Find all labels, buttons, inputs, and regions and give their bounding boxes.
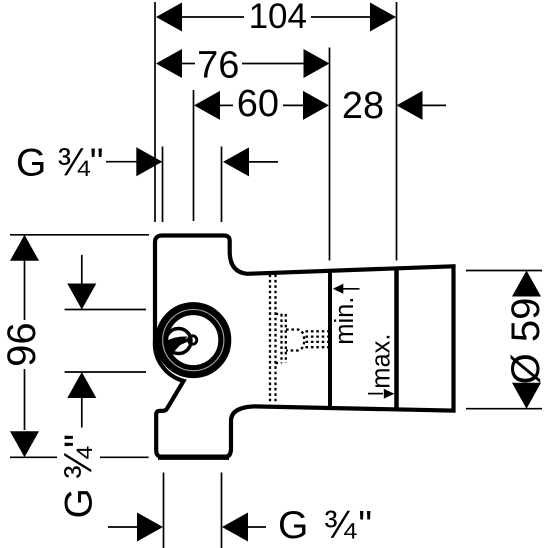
leader tail left port upper <box>81 255 83 285</box>
dimension line 76 right segment <box>242 63 305 65</box>
arrowhead left port lower <box>67 372 96 398</box>
leg bottom edge reinforcement <box>158 455 229 460</box>
max finished-wall divider line <box>394 267 399 409</box>
svg-text:max.: max. <box>368 334 396 389</box>
extension line 96 bottom left segment <box>10 456 57 458</box>
svg-text:76: 76 <box>197 44 239 86</box>
dimension line 60 right segment <box>283 104 305 106</box>
min finished-wall divider line <box>328 269 332 407</box>
hidden spindle cup dashed outline <box>286 330 304 351</box>
svg-text:Ø 59: Ø 59 <box>504 298 548 385</box>
arrowhead 96 bottom <box>10 431 39 457</box>
hidden spindle housing left dashed line <box>269 275 271 404</box>
hidden spindle housing right dashed line <box>274 275 276 404</box>
hidden spindle hub left dashed line <box>280 314 282 363</box>
leader tail bottom port left <box>108 526 139 528</box>
svg-text:60: 60 <box>237 83 279 125</box>
dimension line 104 right segment <box>311 16 372 18</box>
spindle spline dashed row 4 <box>306 346 330 348</box>
max arrowhead <box>384 389 395 399</box>
arrowhead dia 59 top <box>512 271 541 297</box>
arrowhead G 3/4 top leader <box>136 147 162 176</box>
arrowhead 104 right <box>370 3 396 32</box>
hidden spindle hub top dashed cap <box>276 313 282 315</box>
dimension line 104 left segment <box>180 16 244 18</box>
extension line bottom port right <box>221 473 223 548</box>
extension line 96 top <box>10 234 149 236</box>
leader tail top port right arrow <box>248 161 278 163</box>
spindle spline dashed row 3 <box>306 341 330 343</box>
hidden spindle hub right dashed line <box>285 314 287 363</box>
dimension 28 right tail <box>421 104 446 106</box>
dimension line 76 left segment <box>180 63 195 65</box>
extension line dia 59 bottom <box>466 408 542 410</box>
arrowhead 96 top <box>10 235 39 261</box>
extension line top port left <box>162 147 164 223</box>
arrowhead 76 right <box>304 49 330 78</box>
svg-text:28: 28 <box>342 85 384 127</box>
arrowhead 60 right <box>303 91 329 120</box>
min arrowhead <box>333 284 344 294</box>
extension line top port right <box>221 147 223 223</box>
dimension line 96 upper segment <box>24 259 26 320</box>
ring hairline separation <box>163 310 224 371</box>
leader tail left port lower <box>81 396 83 428</box>
arrowhead 104 left <box>156 3 182 32</box>
arrowhead 60 left <box>194 91 220 120</box>
extension line left port top <box>65 309 146 311</box>
valve spindle boss ring <box>162 309 225 372</box>
valve body outline (wall bracket, neck, escutcheon cone) <box>155 236 454 457</box>
svg-text:G ¾": G ¾" <box>57 435 100 519</box>
spindle spline dashed row 1 <box>306 330 330 332</box>
spindle lever bar <box>170 338 193 348</box>
svg-text:G ¾": G ¾" <box>16 141 104 184</box>
arrowhead bottom port left <box>137 513 163 542</box>
spindle knob circle <box>188 336 196 344</box>
svg-text:96: 96 <box>0 322 44 367</box>
svg-text:min.: min. <box>331 297 359 345</box>
arrowhead 28 right <box>397 91 423 120</box>
extension line dia 59 top <box>466 270 542 272</box>
arrowhead bottom port right <box>222 513 248 542</box>
spindle spline dashed row 2 <box>306 335 330 337</box>
extension line min wall <box>329 48 331 261</box>
extension line max wall <box>396 2 398 261</box>
arrowhead top port right <box>223 147 249 176</box>
arrowhead dia 59 bottom <box>512 383 541 409</box>
arrowhead left port upper <box>67 284 96 310</box>
extension line 96 bottom right segment <box>100 456 149 458</box>
arrowhead 76 left <box>156 49 182 78</box>
svg-text:104: 104 <box>249 0 307 36</box>
spindle circle <box>166 329 191 354</box>
extension line bottom port left <box>163 473 165 548</box>
dimension line 96 lower segment <box>24 369 26 430</box>
max arrow tail <box>368 393 383 395</box>
min arrow tail <box>343 288 360 290</box>
svg-text:G ¾": G ¾" <box>278 504 374 547</box>
spindle lever wedge <box>167 337 188 353</box>
hidden spindle hub bottom dashed cap <box>276 362 282 364</box>
leader line G 3/4 top <box>106 161 137 163</box>
dimension line 60 left segment <box>218 104 233 106</box>
extension line body left edge <box>154 2 156 222</box>
extension line left port bottom <box>65 371 146 373</box>
extension line port axis <box>193 90 195 221</box>
leader tail bottom port right <box>247 526 266 528</box>
